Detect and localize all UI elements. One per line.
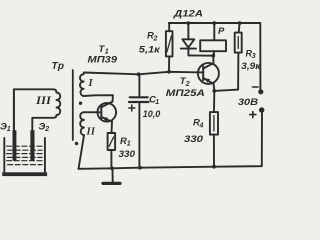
resistor R4 — [210, 91, 218, 167]
svg-text:II: II — [86, 127, 96, 138]
transistor T2 — [198, 56, 219, 84]
svg-text:4: 4 — [199, 123, 204, 130]
svg-text:Д12А: Д12А — [173, 8, 203, 19]
svg-text:МП25А: МП25А — [166, 88, 205, 98]
svg-text:1: 1 — [7, 126, 11, 133]
resistor R3 — [235, 23, 242, 90]
junction emitter node — [212, 89, 216, 93]
wire Э1 to winding III top — [14, 89, 57, 130]
svg-text:МП39: МП39 — [88, 55, 118, 65]
transformer winding I — [80, 73, 84, 97]
transformer winding III — [57, 93, 61, 116]
electrode wire Э1 — [13, 89, 15, 130]
plus supply terminal — [259, 107, 264, 112]
wire winding III bottom to Э2 — [32, 115, 56, 131]
wire T2 emitter to emitter node — [213, 84, 216, 91]
tank liquid dashes — [7, 146, 43, 164]
diode Д12А — [181, 23, 196, 55]
ground — [103, 168, 120, 183]
svg-text:2: 2 — [185, 81, 190, 88]
minus sign — [253, 86, 259, 88]
svg-text:30В: 30В — [238, 97, 258, 108]
svg-text:Р: Р — [218, 26, 225, 37]
junction R1/ground on rail — [110, 166, 114, 170]
junction C1 tap on base wire — [137, 72, 141, 76]
junction relay on top rail — [212, 21, 216, 25]
svg-text:3,9к: 3,9к — [241, 61, 261, 72]
resistor R2 — [166, 23, 173, 72]
transformer core — [72, 70, 74, 140]
wire winding II bottom to bottom rail — [79, 135, 85, 169]
svg-text:330: 330 — [184, 134, 204, 145]
wire R1 to bottom rail — [110, 150, 112, 168]
junction R2 on base wire — [167, 70, 171, 74]
svg-text:2: 2 — [44, 126, 49, 133]
svg-text:5,1к: 5,1к — [139, 45, 161, 56]
transistor T1 — [98, 102, 117, 122]
tank bottom — [2, 172, 47, 176]
svg-text:I: I — [88, 78, 94, 89]
svg-text:1: 1 — [127, 141, 131, 148]
electrode bar Э2 — [30, 130, 34, 160]
tank walls — [3, 138, 5, 174]
wire winding II top to T1 base — [84, 111, 101, 113]
wire plus terminal to bottom rail — [261, 113, 262, 167]
svg-text:10,0: 10,0 — [143, 109, 161, 120]
minus supply terminal — [258, 89, 263, 94]
svg-text:III: III — [35, 95, 52, 107]
wire diode to collector node — [188, 54, 213, 56]
svg-text:1: 1 — [155, 99, 159, 106]
bottom rail — [79, 166, 261, 169]
wire winding I top long wire to T2 base — [84, 72, 203, 75]
svg-text:Тр: Тр — [52, 61, 65, 72]
junction R4 on rail — [212, 165, 216, 169]
junction C1 on rail — [138, 166, 142, 170]
wire R3 bottom to emitter node — [214, 90, 238, 91]
svg-text:3: 3 — [252, 53, 256, 60]
junction collector node — [211, 54, 215, 58]
winding I polarity dot — [79, 102, 82, 105]
wire T1 emitter to R1 — [111, 122, 114, 133]
relay P coil — [200, 23, 226, 56]
plus sign supply — [250, 112, 256, 118]
junction diode on top rail — [186, 21, 190, 25]
svg-text:2: 2 — [153, 36, 158, 43]
capacitor C1 — [129, 74, 149, 167]
svg-text:330: 330 — [119, 149, 136, 160]
C1 plus sign — [129, 105, 135, 111]
top rail — [169, 23, 261, 89]
resistor R1 — [108, 133, 116, 150]
wire winding I bottom to T1 collector — [84, 95, 113, 102]
electrode bar Э1 — [13, 130, 17, 160]
winding II polarity dot — [75, 142, 78, 145]
transformer winding II — [80, 112, 84, 135]
junction R3 on top rail — [238, 21, 242, 25]
